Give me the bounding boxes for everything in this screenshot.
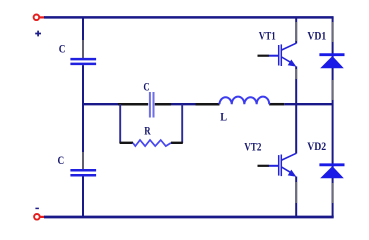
terminal plus (top-left input) <box>34 14 45 20</box>
resistor R <box>120 140 183 146</box>
diode VD2 <box>319 165 344 179</box>
wire middle bus (output node) <box>83 103 334 105</box>
label VD1 <box>307 31 326 43</box>
label R <box>144 124 151 138</box>
wire snubber right drop <box>181 104 183 143</box>
wire VT rail (x=296) <box>295 17 297 217</box>
wire bottom bus <box>44 216 334 219</box>
label C (lower) <box>58 153 65 167</box>
label VT2 <box>244 141 261 153</box>
svg-text:C: C <box>59 41 66 55</box>
wire snubber left drop <box>119 104 121 143</box>
label minus <box>35 207 39 209</box>
capacitor C2 (lower left) <box>70 170 96 175</box>
capacitor C1 (upper left) <box>70 59 96 64</box>
label VD2 <box>307 141 326 153</box>
transistor VT1 (IGBT) <box>258 43 297 66</box>
svg-text:VD2: VD2 <box>307 141 326 153</box>
svg-text:VT1: VT1 <box>259 31 276 43</box>
transistor VT2 (IGBT) <box>258 153 297 176</box>
inductor L <box>219 97 269 105</box>
label C (upper) <box>59 41 66 55</box>
label VT1 <box>259 31 276 43</box>
svg-text:C: C <box>143 79 149 93</box>
terminal minus (bottom-left input) <box>34 214 45 220</box>
diode VD1 <box>319 55 344 68</box>
svg-text:C: C <box>58 153 65 167</box>
label + <box>35 31 41 37</box>
label L <box>220 110 227 124</box>
wire top bus <box>44 16 334 19</box>
svg-text:L: L <box>220 110 227 124</box>
wire left branch (x=83) <box>82 17 84 217</box>
svg-text:VD1: VD1 <box>307 31 326 43</box>
label C (series) <box>143 79 149 93</box>
wire diode rail (x=332.6) <box>332 17 334 217</box>
svg-text:VT2: VT2 <box>244 141 261 153</box>
capacitor C3 (series, middle) <box>150 92 154 118</box>
svg-text:R: R <box>144 124 151 138</box>
